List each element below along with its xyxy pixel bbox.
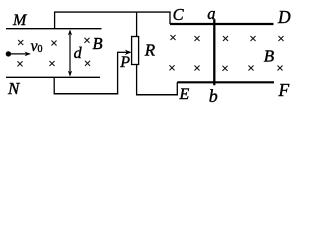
svg-text:N: N — [7, 79, 21, 98]
svg-text:d: d — [74, 45, 83, 62]
svg-text:F: F — [278, 80, 290, 100]
field cross (plates row 2, col 2) — [49, 61, 54, 66]
wire below R — [136, 65, 138, 95]
field cross (rails row 1, col 4) — [250, 36, 255, 41]
label v0 — [31, 38, 43, 55]
wire bottom-right horizontal run — [136, 94, 178, 96]
svg-text:D: D — [277, 7, 291, 27]
field cross (plates row 1, col 3) — [84, 38, 89, 43]
field cross (rails row 2, col 5) — [277, 65, 282, 70]
field cross (rails row 2, col 3) — [222, 66, 227, 71]
velocity arrow v0 — [11, 52, 31, 57]
wire from plate M up — [54, 12, 56, 29]
charged particle — [6, 51, 11, 56]
field cross (rails row 1, col 3) — [223, 36, 228, 41]
wire step down to node C — [169, 12, 171, 25]
svg-text:0: 0 — [38, 44, 43, 55]
plate M (top deflecting plate) — [6, 28, 102, 30]
plate gap dimension arrow d (double headed) — [68, 30, 72, 77]
svg-text:E: E — [179, 86, 190, 103]
wire from plate N down — [53, 77, 55, 93]
svg-text:R: R — [144, 41, 156, 60]
rail C-D (top rail) — [170, 23, 274, 25]
field cross (rails row 2, col 1) — [169, 65, 174, 70]
svg-text:P: P — [119, 54, 130, 71]
field cross (rails row 1, col 1) — [170, 35, 175, 40]
svg-text:C: C — [173, 5, 185, 24]
field cross (plates row 2, col 3) — [85, 61, 90, 66]
wire bottom-left horizontal run — [54, 93, 119, 95]
wiper arrow P (slider contact on R) — [117, 50, 132, 55]
rail E-F (bottom rail) — [177, 81, 274, 83]
field cross (plates row 1, col 1) — [18, 40, 23, 45]
wire above R — [136, 12, 138, 36]
plate N (bottom deflecting plate) — [6, 76, 100, 78]
field cross (rails row 1, col 2) — [194, 36, 199, 41]
svg-text:B: B — [93, 34, 103, 53]
wire step up to node E — [176, 82, 178, 95]
wire top horizontal run — [54, 11, 171, 13]
resistor R (rheostat box) — [132, 37, 139, 65]
field cross (plates row 1, col 2) — [51, 40, 56, 45]
field cross (rails row 1, col 5) — [278, 36, 283, 41]
field cross (rails row 2, col 2) — [194, 65, 199, 70]
svg-text:b: b — [209, 86, 218, 106]
field cross (plates row 2, col 1) — [17, 61, 22, 66]
svg-text:B: B — [264, 46, 275, 65]
svg-text:a: a — [207, 4, 215, 23]
field cross (rails row 2, col 4) — [248, 65, 253, 70]
svg-text:M: M — [12, 12, 28, 29]
wire slider stem (up to wiper P) — [117, 52, 119, 94]
conducting rod ab — [213, 19, 215, 85]
